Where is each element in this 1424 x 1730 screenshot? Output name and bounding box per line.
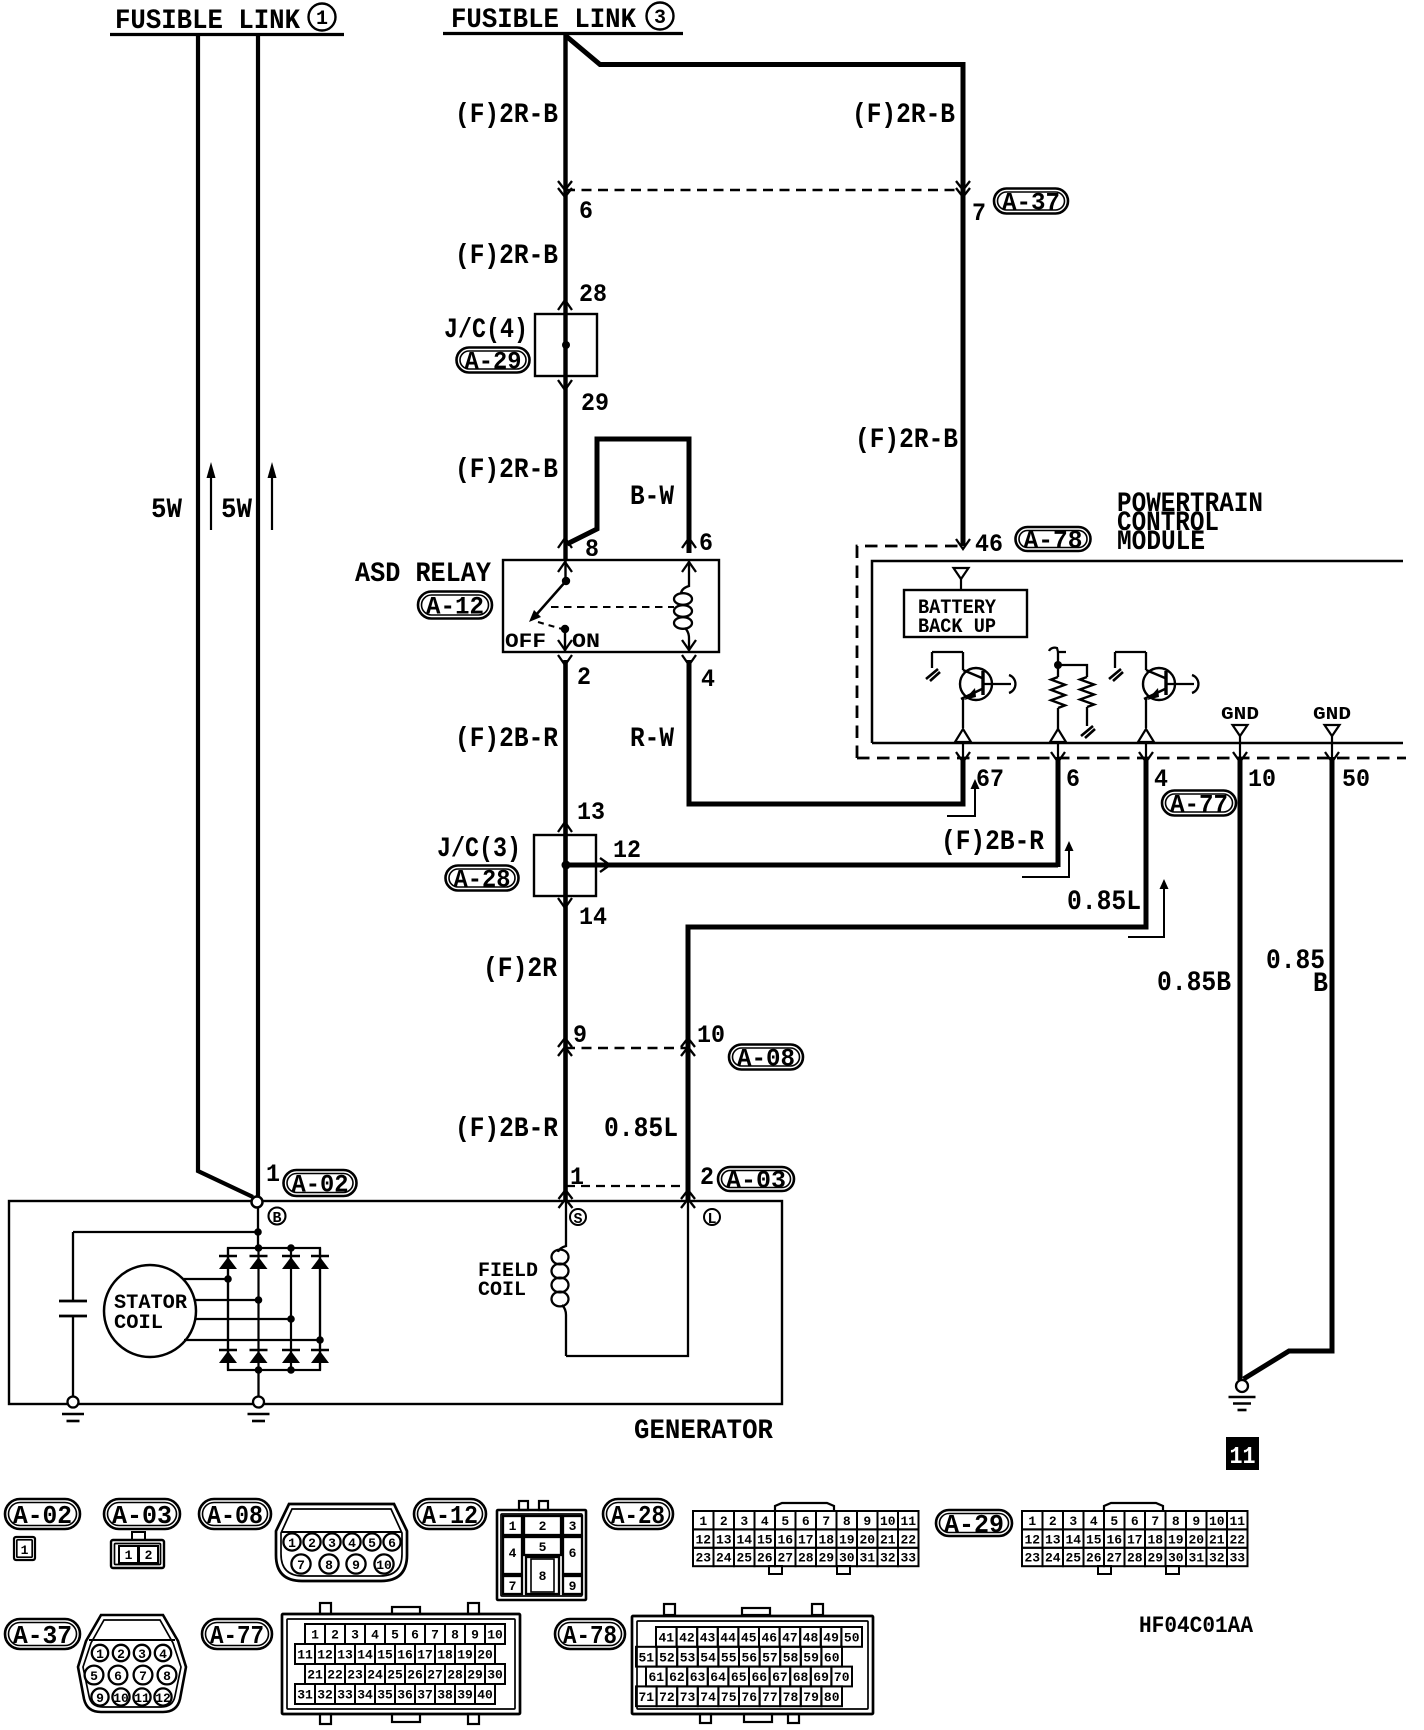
svg-text:6: 6 [569, 1546, 577, 1561]
svg-text:4: 4 [761, 1514, 769, 1529]
battery back up input triangle [954, 568, 969, 590]
pin 10 of PCM [1233, 752, 1276, 794]
svg-text:2: 2 [539, 1519, 547, 1534]
pin 9 of A-08 [558, 1021, 587, 1056]
svg-text:1: 1 [266, 1160, 280, 1189]
wire 5W right from fusible link 1 [256, 34, 260, 1198]
svg-text:78: 78 [783, 1690, 799, 1705]
svg-text:S: S [573, 1211, 582, 1228]
svg-text:33: 33 [337, 1688, 353, 1703]
svg-text:4: 4 [1090, 1514, 1098, 1529]
connector label A-02 (bottom) [5, 1499, 80, 1531]
svg-text:9: 9 [863, 1514, 871, 1529]
stator phase wire 4 [184, 1336, 324, 1344]
svg-text:7: 7 [1151, 1514, 1159, 1529]
svg-text:48: 48 [803, 1631, 819, 1646]
diode pair column D2 D6 [250, 1248, 268, 1370]
svg-text:R-W: R-W [630, 724, 674, 755]
svg-text:38: 38 [437, 1688, 453, 1703]
svg-text:1: 1 [96, 1647, 104, 1662]
svg-text:54: 54 [700, 1650, 716, 1665]
svg-text:7: 7 [297, 1558, 305, 1573]
svg-text:(F)2B-R: (F)2B-R [455, 1114, 558, 1145]
svg-text:28: 28 [447, 1668, 463, 1683]
wire label (F)2R-B mid left [455, 241, 558, 272]
svg-text:27: 27 [777, 1551, 793, 1566]
harness continuation arrow at PCM pin 6 [1022, 841, 1074, 877]
svg-text:5: 5 [90, 1669, 98, 1684]
svg-text:26: 26 [1086, 1551, 1102, 1566]
pin 7 of A-37 [956, 181, 986, 228]
wire B-W loop from main line to relay pin 6 [567, 439, 689, 553]
svg-text:23: 23 [347, 1668, 363, 1683]
ground label GND right [1313, 705, 1351, 736]
svg-text:B-W: B-W [630, 482, 674, 513]
svg-text:51: 51 [638, 1650, 654, 1665]
wire bridge to generator ground [257, 1370, 259, 1397]
resistor R2 [1080, 677, 1095, 738]
svg-text:57: 57 [762, 1650, 778, 1665]
wire label 0.85B [1157, 968, 1231, 999]
terminal L mark [704, 1209, 720, 1228]
connector A-08 pinout [276, 1504, 407, 1581]
stator phase wire 3 [196, 1315, 295, 1323]
connector label A-12 (bottom) [414, 1499, 486, 1531]
pin 4 of PCM [1139, 752, 1168, 794]
connector label A-29 (bottom) [936, 1510, 1012, 1540]
svg-text:35: 35 [377, 1688, 393, 1703]
svg-text:65: 65 [731, 1670, 747, 1685]
svg-text:A-02: A-02 [292, 1171, 349, 1200]
svg-text:43: 43 [700, 1631, 716, 1646]
svg-text:(F)2B-R: (F)2B-R [455, 724, 558, 755]
svg-text:(F)2R-B: (F)2R-B [455, 241, 558, 272]
svg-text:A-12: A-12 [426, 593, 484, 622]
wire label 0.85 B [1266, 946, 1328, 1000]
label OFF [505, 631, 546, 654]
label ON [572, 631, 600, 654]
svg-text:COIL: COIL [478, 1279, 526, 1302]
svg-text:31: 31 [859, 1551, 875, 1566]
svg-text:A-08: A-08 [737, 1045, 795, 1074]
pin 46 of PCM [956, 530, 1003, 559]
connector label A-29 [457, 348, 530, 377]
svg-text:24: 24 [1045, 1551, 1061, 1566]
svg-text:4: 4 [371, 1628, 379, 1643]
svg-text:4: 4 [701, 665, 715, 694]
svg-text:9: 9 [96, 1691, 104, 1706]
svg-text:21: 21 [1209, 1532, 1225, 1547]
value label 5W left with arrow [151, 462, 216, 530]
wire label 0.85L right [1067, 887, 1141, 918]
svg-text:8: 8 [451, 1628, 459, 1643]
svg-text:30: 30 [1168, 1551, 1184, 1566]
label J/C(3) [437, 834, 521, 865]
svg-text:8: 8 [1172, 1514, 1180, 1529]
svg-text:1: 1 [316, 8, 328, 31]
connector label A-03 (bottom) [104, 1499, 180, 1531]
svg-text:29: 29 [1147, 1551, 1163, 1566]
junction connector J/C(3) A-28 [534, 835, 596, 896]
svg-text:21: 21 [880, 1532, 896, 1547]
svg-text:32: 32 [880, 1551, 896, 1566]
wire 0.85 B from PCM pin 50 to ground [1244, 735, 1333, 1379]
svg-text:18: 18 [818, 1532, 834, 1547]
svg-text:53: 53 [680, 1650, 696, 1665]
svg-text:10: 10 [880, 1514, 896, 1529]
svg-text:A-03: A-03 [726, 1167, 786, 1196]
ground symbol chassis right [1229, 1380, 1256, 1410]
svg-text:34: 34 [357, 1688, 373, 1703]
svg-text:47: 47 [782, 1631, 798, 1646]
junction connector J/C(4) A-29 [535, 314, 597, 376]
svg-text:13: 13 [577, 798, 605, 827]
wire label (F)2R-B upper right [852, 100, 955, 131]
svg-text:25: 25 [387, 1668, 403, 1683]
ground reference 11 tag [1226, 1437, 1259, 1471]
diode pair column D1 D5 [219, 1248, 237, 1370]
svg-text:8: 8 [163, 1669, 171, 1684]
svg-text:73: 73 [680, 1690, 696, 1705]
svg-text:6: 6 [114, 1669, 122, 1684]
junction dot capacitor branch [73, 1228, 262, 1236]
wire label (F)2R-B upper left [455, 100, 558, 131]
svg-text:10: 10 [1209, 1514, 1225, 1529]
pin 4 of ASD relay [682, 640, 715, 694]
svg-text:10: 10 [697, 1021, 725, 1050]
transistor Q2 (pin 4 driver) [1109, 652, 1198, 742]
harness continuation arrow at pin 67 [947, 779, 980, 816]
svg-text:3: 3 [1069, 1514, 1077, 1529]
svg-text:56: 56 [741, 1650, 757, 1665]
svg-text:16: 16 [1106, 1532, 1122, 1547]
connector label A-02 [284, 1170, 357, 1200]
wire fusible link 3 to PCM pin 46 (top right run) [566, 36, 963, 546]
svg-text:1: 1 [125, 1548, 133, 1563]
wire label (F)2B-R left [455, 724, 558, 755]
stator phase wire 1 [184, 1275, 232, 1283]
svg-text:3: 3 [351, 1628, 359, 1643]
harness continuation arrow at PCM pin 4 [1128, 879, 1169, 937]
svg-text:8: 8 [539, 1569, 547, 1584]
svg-text:14: 14 [1065, 1532, 1081, 1547]
svg-text:10: 10 [376, 1558, 392, 1573]
pin 2 L terminal of generator [681, 1163, 714, 1208]
svg-text:40: 40 [477, 1688, 493, 1703]
svg-text:5: 5 [781, 1514, 789, 1529]
svg-text:7: 7 [822, 1514, 830, 1529]
svg-text:18: 18 [1147, 1532, 1163, 1547]
svg-text:22: 22 [327, 1668, 343, 1683]
svg-text:1: 1 [570, 1163, 584, 1192]
svg-text:3: 3 [569, 1519, 577, 1534]
svg-text:45: 45 [741, 1631, 757, 1646]
svg-text:6: 6 [1131, 1514, 1139, 1529]
svg-text:13: 13 [337, 1648, 353, 1663]
pin 8 of ASD relay [558, 535, 599, 572]
svg-text:72: 72 [659, 1690, 675, 1705]
svg-text:55: 55 [721, 1650, 737, 1665]
fusible link 3 label [443, 3, 683, 37]
ground symbol generator main [248, 1397, 270, 1422]
svg-text:10: 10 [1248, 765, 1276, 794]
svg-text:24: 24 [367, 1668, 383, 1683]
svg-text:22: 22 [900, 1532, 916, 1547]
svg-text:5: 5 [539, 1540, 547, 1555]
svg-text:31: 31 [1188, 1551, 1204, 1566]
wire 0.85B from PCM pin 10 to ground [1238, 735, 1243, 1380]
svg-text:(F)2R-B: (F)2R-B [855, 425, 958, 456]
battery back up block [904, 590, 1027, 639]
svg-text:16: 16 [777, 1532, 793, 1547]
connector A-08 junction dashed line [565, 1047, 688, 1049]
svg-text:6: 6 [802, 1514, 810, 1529]
pin 14 of J/C(3) [558, 898, 607, 932]
svg-text:A-29: A-29 [465, 348, 522, 377]
bridge junction dots [255, 1244, 295, 1374]
svg-text:12: 12 [1024, 1532, 1040, 1547]
svg-text:77: 77 [762, 1690, 778, 1705]
svg-text:COIL: COIL [114, 1312, 163, 1335]
connector label A-37 [994, 189, 1068, 218]
svg-text:20: 20 [859, 1532, 875, 1547]
svg-text:70: 70 [834, 1670, 850, 1685]
connector label A-28 (bottom) [603, 1499, 673, 1531]
svg-text:9: 9 [352, 1558, 360, 1573]
svg-text:41: 41 [658, 1631, 674, 1646]
svg-text:4: 4 [509, 1546, 517, 1561]
svg-text:J/C(4): J/C(4) [444, 315, 528, 346]
field coil [552, 1201, 689, 1356]
connector A-29 pinout [1022, 1503, 1248, 1574]
svg-text:12: 12 [317, 1648, 333, 1663]
connector A-77 pinout [282, 1603, 520, 1724]
svg-text:6: 6 [411, 1628, 419, 1643]
connector label A-03 [718, 1167, 794, 1196]
pin 50 of PCM [1325, 752, 1370, 794]
svg-text:11: 11 [1230, 1444, 1256, 1471]
svg-text:GENERATOR: GENERATOR [634, 1416, 773, 1447]
pin 28 of J/C(4) [558, 280, 607, 310]
svg-text:14: 14 [736, 1532, 752, 1547]
svg-text:74: 74 [700, 1690, 716, 1705]
relay switch common wire [564, 560, 566, 581]
pin 13 of J/C(3) [558, 798, 605, 832]
svg-text:37: 37 [417, 1688, 433, 1703]
transistor Q1 (pin 67 driver) [926, 652, 1015, 742]
svg-text:71: 71 [638, 1690, 654, 1705]
svg-text:A-02: A-02 [13, 1501, 72, 1531]
svg-text:28: 28 [1127, 1551, 1143, 1566]
svg-text:58: 58 [783, 1650, 799, 1665]
connector label A-08 (bottom) [199, 1499, 271, 1531]
svg-text:33: 33 [900, 1551, 916, 1566]
svg-text:A-77: A-77 [210, 1621, 264, 1651]
wire (F)2B-R from relay pin 2 to J/C(3) [563, 660, 568, 835]
connector label A-08 [729, 1045, 803, 1074]
svg-text:44: 44 [720, 1631, 736, 1646]
svg-text:64: 64 [710, 1670, 726, 1685]
svg-text:5W: 5W [221, 495, 252, 526]
svg-text:17: 17 [798, 1532, 814, 1547]
wire node B to rectifier bridge [257, 1207, 259, 1250]
svg-text:9: 9 [573, 1021, 587, 1050]
svg-text:9: 9 [1192, 1514, 1200, 1529]
svg-text:A-78: A-78 [1024, 527, 1083, 556]
svg-text:2: 2 [117, 1647, 125, 1662]
svg-text:66: 66 [751, 1670, 767, 1685]
svg-text:A-37: A-37 [1002, 189, 1060, 218]
svg-text:12: 12 [695, 1532, 711, 1547]
relay coil [674, 560, 692, 652]
label POWERTRAIN CONTROL MODULE [1117, 489, 1263, 558]
svg-text:10: 10 [113, 1691, 129, 1706]
svg-text:42: 42 [679, 1631, 695, 1646]
relay switch arm (OFF position) [529, 581, 566, 622]
label J/C(4) [444, 315, 528, 346]
connector label A-12 [418, 592, 492, 622]
svg-text:A-29: A-29 [944, 1510, 1004, 1540]
svg-text:A-77: A-77 [1170, 791, 1228, 820]
svg-text:25: 25 [736, 1551, 752, 1566]
connector label A-78 (bottom) [555, 1619, 625, 1651]
svg-text:27: 27 [1106, 1551, 1122, 1566]
svg-text:8: 8 [843, 1514, 851, 1529]
svg-text:15: 15 [377, 1648, 393, 1663]
svg-text:FUSIBLE LINK: FUSIBLE LINK [115, 6, 300, 37]
svg-text:22: 22 [1229, 1532, 1245, 1547]
svg-text:21: 21 [307, 1668, 323, 1683]
powertrain control module dashed connector boundary A-78 [857, 546, 1406, 758]
svg-text:8: 8 [585, 535, 599, 564]
svg-text:15: 15 [757, 1532, 773, 1547]
svg-text:13: 13 [1045, 1532, 1061, 1547]
svg-text:67: 67 [976, 765, 1004, 794]
svg-text:1: 1 [288, 1536, 296, 1551]
stator coil circle [104, 1265, 196, 1357]
diode pair column D3 D7 [282, 1248, 300, 1370]
svg-text:3: 3 [654, 7, 666, 30]
svg-text:0.85B: 0.85B [1157, 968, 1231, 999]
svg-text:16: 16 [397, 1648, 413, 1663]
pin 1 label of A-02 [266, 1160, 280, 1189]
svg-text:1: 1 [509, 1519, 517, 1534]
diode pair column D4 D8 [311, 1248, 329, 1370]
svg-text:61: 61 [648, 1670, 664, 1685]
connector label A-28 [446, 866, 519, 895]
svg-text:19: 19 [839, 1532, 855, 1547]
svg-text:15: 15 [1086, 1532, 1102, 1547]
svg-text:60: 60 [824, 1650, 840, 1665]
svg-text:29: 29 [818, 1551, 834, 1566]
svg-text:30: 30 [487, 1668, 503, 1683]
label ASD RELAY [355, 559, 491, 590]
label GENERATOR [634, 1416, 773, 1447]
svg-text:19: 19 [1168, 1532, 1184, 1547]
pin 6 of PCM [1051, 752, 1080, 794]
svg-text:1: 1 [1028, 1514, 1036, 1529]
svg-text:6: 6 [699, 529, 713, 558]
svg-text:32: 32 [317, 1688, 333, 1703]
svg-text:5: 5 [391, 1628, 399, 1643]
powertrain control module box [872, 561, 1403, 743]
connector A-03 junction dashed line [566, 1185, 688, 1187]
resistor R1 [1049, 648, 1087, 742]
svg-text:3: 3 [138, 1647, 146, 1662]
svg-text:59: 59 [803, 1650, 819, 1665]
relay ON contact [561, 625, 569, 652]
svg-text:12: 12 [613, 836, 641, 865]
svg-text:20: 20 [477, 1648, 493, 1663]
wire (F)2R main line J/C(3) to generator S terminal [563, 896, 568, 1201]
svg-text:9: 9 [569, 1579, 577, 1594]
pin 29 of J/C(4) [558, 380, 609, 418]
connector A-78 pinout [632, 1604, 873, 1723]
svg-text:ON: ON [572, 631, 600, 654]
svg-text:A-12: A-12 [422, 1501, 478, 1531]
svg-text:62: 62 [669, 1670, 685, 1685]
wire label (F)2B-R bottom [455, 1114, 558, 1145]
svg-text:4: 4 [1154, 765, 1168, 794]
svg-text:19: 19 [457, 1648, 473, 1663]
svg-text:80: 80 [824, 1690, 840, 1705]
svg-text:63: 63 [690, 1670, 706, 1685]
svg-text:(F)2R-B: (F)2R-B [455, 100, 558, 131]
svg-text:A-78: A-78 [563, 1621, 617, 1651]
svg-text:36: 36 [397, 1688, 413, 1703]
wire label (F)2R [483, 954, 557, 985]
connector A-02 pinout [14, 1537, 35, 1560]
fusible link 1 label [110, 4, 344, 38]
wire R-W from relay pin 4 to PCM pin 67 [689, 660, 963, 804]
pin 2 of ASD relay [558, 640, 591, 692]
svg-text:27: 27 [427, 1668, 443, 1683]
svg-text:5: 5 [1110, 1514, 1118, 1529]
svg-text:39: 39 [457, 1688, 473, 1703]
wire label (F)2R-B right of PCM feed [855, 425, 958, 456]
connector label A-37 (bottom) [5, 1619, 80, 1651]
connector A-12 pinout [497, 1501, 586, 1600]
svg-text:18: 18 [437, 1648, 453, 1663]
svg-text:7: 7 [509, 1579, 517, 1594]
svg-text:68: 68 [793, 1670, 809, 1685]
svg-text:32: 32 [1209, 1551, 1225, 1566]
svg-text:25: 25 [1065, 1551, 1081, 1566]
wire 5W left from fusible link 1 [198, 34, 253, 1197]
svg-text:23: 23 [1024, 1551, 1040, 1566]
svg-text:3: 3 [328, 1536, 336, 1551]
rectifier bridge frame [228, 1248, 320, 1370]
pin 1 S terminal of generator [559, 1163, 585, 1208]
svg-text:50: 50 [844, 1631, 860, 1646]
svg-text:1: 1 [699, 1514, 707, 1529]
svg-text:49: 49 [823, 1631, 839, 1646]
wire label 0.85L bottom [604, 1114, 678, 1145]
svg-text:A-08: A-08 [207, 1501, 263, 1531]
terminal B mark [269, 1208, 286, 1228]
node B terminal of generator (A-02 pin 1) [252, 1197, 263, 1208]
svg-text:31: 31 [297, 1688, 313, 1703]
svg-text:29: 29 [467, 1668, 483, 1683]
svg-text:OFF: OFF [505, 631, 546, 654]
svg-text:(F)2R-B: (F)2R-B [852, 100, 955, 131]
pin 67 of PCM [956, 752, 1004, 794]
pin 6 of A-37 [558, 181, 593, 226]
svg-text:17: 17 [417, 1648, 433, 1663]
svg-text:0.85L: 0.85L [604, 1114, 678, 1145]
diagram code HF04C01AA [1139, 1613, 1253, 1639]
pin 12 of J/C(3) wire (F)2B-R to PCM pin 6 [566, 742, 1058, 872]
